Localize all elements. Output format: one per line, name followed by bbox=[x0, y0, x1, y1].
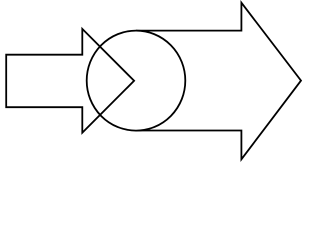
small left block arrow bbox=[6, 29, 134, 133]
large right block arrow bbox=[136, 3, 301, 160]
circle bbox=[87, 31, 186, 131]
diagram: small block arrow entering circle, large block arrow exiting right bbox=[0, 0, 304, 168]
